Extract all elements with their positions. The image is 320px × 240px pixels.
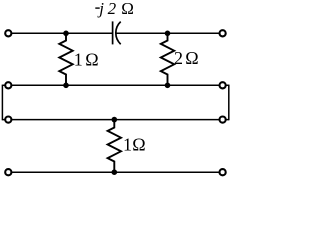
junction dot rail2-R2 [165, 83, 171, 89]
svg-text:Ω: Ω [132, 135, 145, 155]
resistor R3 1 ohm (bottom series) [108, 120, 121, 173]
svg-text:Ω: Ω [185, 48, 198, 68]
terminal mid-right lower [220, 117, 226, 123]
junction dot rail3-R3 [112, 117, 118, 123]
svg-text:2: 2 [174, 48, 183, 68]
terminal top-left [5, 30, 11, 36]
junction dot rail1-R1 [63, 31, 69, 37]
terminal bottom-left [5, 169, 11, 175]
capacitor C1 right plate (curved) [116, 22, 121, 45]
wire rail 1 (top, right segment from capacitor) [116, 32, 223, 34]
wire rail 3 (third from top, full width with end stubs) [2, 119, 228, 121]
terminal bottom-right [220, 169, 226, 175]
resistor R2 2 ohm (right shunt) [161, 33, 174, 85]
svg-text:1: 1 [123, 135, 132, 155]
terminal mid-right upper [220, 82, 226, 88]
wire rail 1 (top, left segment to capacitor) [8, 32, 112, 34]
junction dot rail2-R1 [63, 83, 69, 89]
capacitor C1 value label -j2 ohms [95, 7, 99, 9]
svg-text:j: j [97, 0, 104, 18]
svg-text:2: 2 [108, 0, 117, 18]
terminal top-right [220, 30, 226, 36]
junction dot rail4-R3 [112, 169, 118, 175]
wire right vertical connecting rail 2 and rail 3 [228, 85, 230, 121]
junction dot rail1-R2 [165, 31, 171, 37]
capacitor C1 left plate (straight) [112, 21, 114, 44]
wire left vertical connecting rail 2 and rail 3 [1, 85, 3, 121]
wire rail 4 (bottom) [8, 171, 222, 173]
svg-text:Ω: Ω [121, 0, 134, 18]
resistor R1 1 ohm (left shunt) [59, 33, 72, 85]
wire rail 2 (second from top, full width with end stubs) [2, 84, 228, 86]
terminal mid-left lower [5, 117, 11, 123]
svg-text:1: 1 [74, 50, 83, 70]
terminal mid-left upper [5, 82, 11, 88]
svg-text:Ω: Ω [85, 50, 98, 70]
